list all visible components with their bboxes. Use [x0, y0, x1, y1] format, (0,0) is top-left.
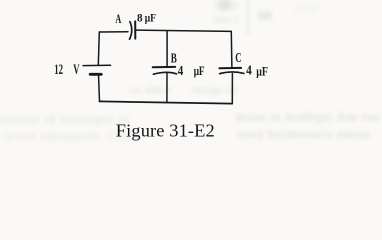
bleed-through text bottom-left: [0, 111, 129, 127]
capacitor C straight top plate: [219, 67, 241, 69]
svg-text:4: 4: [178, 64, 184, 79]
svg-text:μF: μF: [194, 63, 205, 78]
bleed-through smudge inside left cell: [130, 84, 173, 96]
wire right vertical upper: [230, 31, 233, 68]
bleed-through text bottom-right: [236, 109, 380, 125]
svg-text:B: B: [171, 51, 177, 66]
wire top-right segment: [136, 30, 231, 31]
bleed-through smudge top-center: [214, 0, 238, 27]
wire left vertical upper: [98, 32, 99, 65]
battery long top plate: [83, 64, 111, 66]
wire middle branch lower: [166, 73, 168, 103]
bleed-through smudge top-right: [295, 2, 317, 14]
svg-text:12: 12: [54, 62, 63, 78]
wire bottom horizontal: [100, 101, 233, 103]
bleed-through text bottom-right row2: [238, 126, 371, 142]
bleed-through text bottom-left row2: [0, 128, 138, 144]
svg-text:V: V: [73, 62, 79, 78]
capacitor B curved bottom plate: [153, 72, 176, 74]
svg-text:A: A: [115, 11, 121, 26]
capacitor C curved bottom plate: [220, 72, 244, 74]
capacitor A straight right plate: [134, 21, 136, 38]
wire middle branch upper: [166, 31, 168, 67]
capacitor B straight top plate: [153, 66, 176, 68]
bleed-through faint vertical mark top: [219, 0, 231, 10]
battery short thick bottom plate: [90, 73, 101, 76]
svg-text:4: 4: [246, 64, 252, 79]
bleed-through smudge inside right cell: [191, 84, 238, 96]
bleed-through faint blob top: [258, 11, 272, 20]
svg-text:Figure 31-E2: Figure 31-E2: [116, 120, 215, 140]
svg-text:C: C: [235, 51, 241, 66]
svg-text:μF: μF: [145, 10, 156, 24]
svg-text:μF: μF: [256, 63, 268, 78]
wire left vertical lower: [99, 74, 100, 101]
wire right vertical lower: [231, 74, 233, 104]
wire top-left segment: [99, 31, 128, 33]
bleed-through faint vertical mark top 2: [247, 0, 249, 34]
capacitor A curved left plate: [130, 22, 132, 40]
svg-text:8: 8: [137, 10, 143, 24]
